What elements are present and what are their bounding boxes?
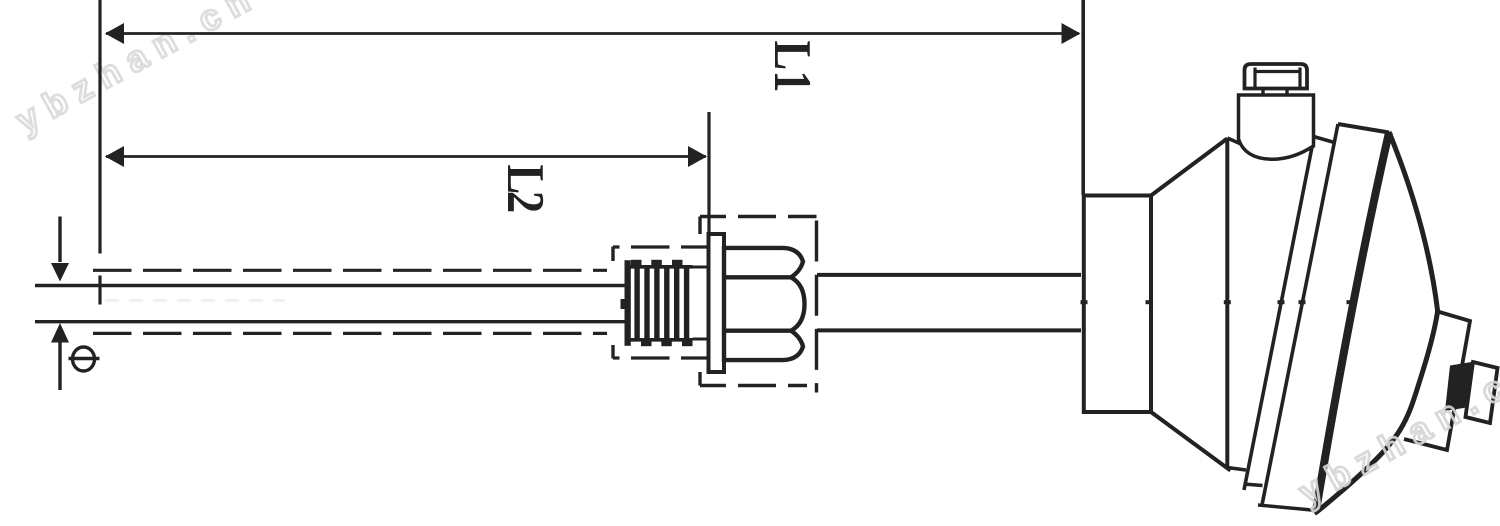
svg-text:L2: L2 xyxy=(496,165,556,212)
svg-text:L1: L1 xyxy=(763,41,823,93)
